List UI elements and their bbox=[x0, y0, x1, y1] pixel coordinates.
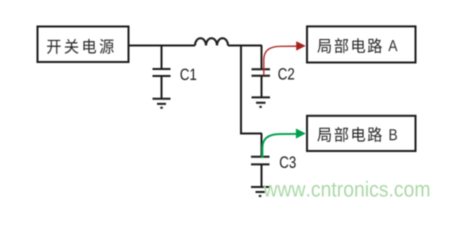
ground below C2 bbox=[252, 97, 271, 107]
wire: inductor to C2 node bbox=[228, 45, 262, 47]
label C1 bbox=[180, 69, 196, 81]
ground below C1 bbox=[153, 99, 171, 108]
watermark www.cntronics.com bbox=[263, 181, 429, 197]
label 开关电源 bbox=[47, 39, 114, 54]
ground below C3 bbox=[251, 187, 270, 196]
inductor L1 bbox=[195, 38, 228, 45]
red noise-current arrow to circuit A bbox=[264, 41, 306, 75]
box: local circuit B bbox=[307, 116, 416, 151]
green noise-current arrow to circuit B bbox=[262, 129, 305, 159]
wire: junction down to branch B and right to C3 bbox=[241, 46, 262, 134]
label 局部电路 B bbox=[317, 127, 397, 142]
label C2 bbox=[278, 68, 294, 80]
box: local circuit A bbox=[307, 26, 416, 62]
label C3 bbox=[280, 156, 296, 168]
label 局部电路 A bbox=[317, 38, 397, 53]
capacitor C3 bbox=[251, 134, 270, 188]
box: switching power supply 开关电源 bbox=[38, 27, 129, 63]
wire: PSU output to inductor bbox=[129, 45, 196, 47]
capacitor C1 bbox=[153, 46, 171, 99]
capacitor C2 bbox=[252, 46, 271, 98]
